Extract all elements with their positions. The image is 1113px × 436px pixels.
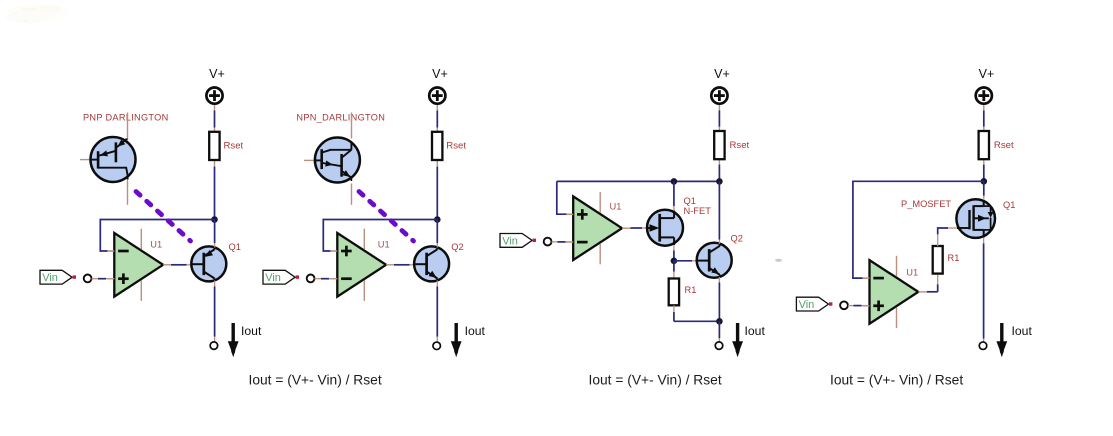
wire node B to Q2 collector (circuit 3)	[718, 181, 720, 239]
svg-text:PNP DARLINGTON: PNP DARLINGTON	[83, 113, 169, 123]
op-amp U1 (circuit 3) body	[573, 196, 622, 260]
input net flag Vin (circuit 4)	[796, 297, 828, 311]
resistor Rset pin stubs (circuit 4)	[983, 127, 985, 131]
transistor Q2 base lead (circuit 2)	[415, 263, 427, 265]
wire node B to Q1 drain (circuit 3)	[673, 181, 675, 206]
wire V+ to Rset (circuit 1)	[214, 105, 216, 111]
svg-text:Rset: Rset	[446, 141, 466, 152]
bottom wire R1 to node D (circuit 3)	[674, 320, 720, 322]
transistor Q2 emitter w/ NPN arrow (circuit 2)	[427, 272, 438, 279]
resistor Rset pin stubs (circuit 3)	[718, 127, 720, 131]
resistor Rset (circuit 2)	[432, 132, 442, 160]
transistor Q1 base bar (circuit 1)	[202, 253, 205, 275]
power supply V+ terminal symbol	[711, 88, 727, 104]
op-amp U1 (circuit 2) inverting input marker (-) bottom	[341, 277, 352, 280]
red hotspot dot at Vin flag tip (circuit 3)	[533, 239, 536, 242]
red hotspot dot at Vin flag tip (circuit 2)	[296, 275, 299, 278]
Iout current arrow (circuit 1)	[231, 323, 234, 342]
darlington PNP pin stubs (circuit 1)	[127, 113, 129, 141]
annotation dashed purple pointer (circuit 2)	[359, 192, 414, 242]
junction dot node C junction (circuit 3)	[671, 258, 678, 265]
input net flag Vin (circuit 1)	[40, 270, 72, 284]
wire op-amp output to Q2 base (circuit 2)	[394, 264, 410, 266]
transistor Q2 body circle (circuit 3)	[697, 243, 732, 278]
op-amp U1 (circuit 4) output pin stub	[918, 291, 927, 293]
Iout current arrow (circuit 3)	[736, 323, 739, 342]
Iout current arrow (circuit 4)	[1000, 323, 1003, 342]
op-amp U1 (circuit 1) input pin stubs	[107, 250, 114, 252]
svg-text:Iout = (V+- Vin) / Rset: Iout = (V+- Vin) / Rset	[249, 373, 382, 388]
svg-text:R1: R1	[685, 285, 697, 295]
output terminal circle (circuit 2)	[433, 342, 441, 350]
svg-text:N-FET: N-FET	[684, 206, 712, 216]
transistor Q2 body circle (circuit 2)	[414, 246, 449, 281]
svg-text:Vin: Vin	[265, 272, 281, 284]
faint background smudge (very light)	[6, 4, 68, 23]
wire Q2 emitter down to node D (circuit 3)	[718, 277, 720, 283]
wire op-amp output to Q1 base (circuit 1)	[171, 264, 187, 266]
svg-text:Vin: Vin	[502, 235, 518, 247]
wire node E to Q1 source (circuit 4)	[983, 181, 985, 196]
op-amp U1 (circuit 2) positive supply pin stub	[363, 229, 365, 250]
red hotspot dot at Vin flag tip (circuit 4)	[829, 302, 832, 305]
op-amp U1 (circuit 3) input pin stubs	[566, 213, 573, 215]
feedback wire node E to op-amp - input (circuit 4)	[853, 181, 984, 278]
feedback pin stub into op-amp (circuit 3)	[567, 213, 574, 215]
transistor Q1 collector (circuit 1)	[204, 272, 215, 279]
op-amp U1 (circuit 3) negative supply pin stub	[599, 244, 601, 264]
svg-text:Rset: Rset	[224, 141, 244, 152]
darlington PNP internal symbol (circuit 1)	[91, 159, 98, 161]
svg-text:Q1: Q1	[684, 196, 696, 206]
annotation dashed purple pointer (circuit 1)	[136, 192, 191, 242]
feedback wire node A1 to op-amp inverting input (circuit 1)	[100, 220, 214, 252]
darlington NPN body circle (circuit 2)	[315, 138, 360, 183]
transistor Q2 collector (circuit 2)	[427, 249, 438, 256]
wire V+ to Rset (circuit 4)	[983, 105, 985, 111]
svg-text:Q2: Q2	[451, 242, 463, 252]
transistor Q1 N-FET internal symbol (circuit 3)	[648, 227, 654, 229]
wire Rset to node B (circuit 3)	[718, 165, 720, 182]
svg-text:Rset: Rset	[730, 140, 750, 151]
op-amp U1 (circuit 2) body	[337, 233, 386, 297]
output terminal circle (circuit 4)	[979, 342, 987, 350]
transistor Q1 base lead (circuit 1)	[192, 263, 204, 265]
transistor Q2 collector (circuit 3)	[709, 246, 720, 253]
wire V+ to Rset (circuit 2)	[436, 105, 438, 111]
op-amp U1 (circuit 1) body	[114, 233, 163, 297]
op-amp U1 (circuit 4) positive supply pin stub	[896, 256, 898, 276]
transistor Q2 emitter w/ NPN arrow (circuit 3)	[709, 268, 720, 275]
svg-text:Vin: Vin	[42, 272, 58, 284]
wire node A2 to Q2 collector (circuit 2)	[436, 220, 438, 244]
svg-text:Iout = (V+- Vin) / Rset: Iout = (V+- Vin) / Rset	[589, 373, 722, 388]
wire op-amp output up to R1 (circuit 4)	[927, 291, 938, 293]
wire node D to output terminal (circuit 3)	[718, 321, 720, 338]
wire Q1 source to node C (circuit 3)	[673, 245, 675, 250]
input terminal circle (circuit 1)	[84, 275, 92, 283]
Iout current arrow (circuit 2)	[455, 323, 458, 342]
transistor Q2 base bar (circuit 2)	[425, 253, 428, 275]
transistor Q2 base lead (circuit 3)	[698, 260, 710, 262]
power supply V+ terminal symbol	[206, 88, 222, 104]
op-amp U1 (circuit 1) non-inverting input marker (+) bottom	[118, 277, 129, 280]
resistor Rset (circuit 4)	[979, 131, 989, 159]
svg-text:U1: U1	[378, 239, 390, 249]
wire R1 to bottom rail (circuit 3)	[673, 305, 675, 312]
feedback wire to op-amp + input (circuit 3)	[557, 181, 567, 214]
op-amp U1 (circuit 2) negative supply pin stub	[363, 280, 365, 301]
feedback wire node A2 to op-amp + input (circuit 2)	[323, 220, 437, 252]
wire node A1 to Q1 emitter (circuit 1)	[214, 220, 216, 244]
svg-text:R1: R1	[948, 253, 960, 263]
resistor R1 (circuit 3)	[669, 279, 679, 306]
wire Vin terminal to op-amp - input (circuit 3)	[552, 241, 558, 243]
wire Q1 collector to output terminal (circuit 1)	[214, 281, 216, 287]
op-amp U1 (circuit 3) non-inverting input marker (+) top	[577, 213, 588, 216]
svg-text:Vin: Vin	[799, 299, 815, 311]
resistor R1 (circuit 4)	[933, 246, 943, 274]
transistor Q1 N-FET body circle (circuit 3)	[647, 210, 683, 246]
transistor Q2 base bar (circuit 3)	[708, 249, 711, 271]
darlington NPN pin stubs (circuit 2)	[351, 113, 353, 139]
wire R1 to Q1 gate (circuit 4)	[937, 234, 939, 247]
svg-text:Q1: Q1	[229, 242, 241, 252]
input net flag Vin (circuit 2)	[263, 270, 295, 284]
svg-text:U1: U1	[610, 201, 622, 211]
red hotspot dot at Vin flag tip (circuit 1)	[73, 275, 76, 278]
darlington PNP body circle (circuit 1)	[91, 137, 136, 182]
svg-text:P_MOSFET: P_MOSFET	[901, 199, 951, 209]
op-amp U1 (circuit 3) output pin stub	[622, 227, 631, 229]
wire node C to Q2 base (circuit 3)	[674, 260, 692, 262]
output terminal circle (circuit 1)	[210, 342, 218, 350]
op-amp U1 (circuit 1) output pin stub	[163, 264, 172, 266]
wire Rset to node A2 (circuit 2)	[436, 167, 438, 220]
faint gray dot artifact between circuits	[775, 259, 782, 262]
input terminal circle (circuit 4)	[840, 301, 848, 309]
wire Vin terminal to op-amp - input (circuit 2)	[315, 278, 322, 280]
op-amp U1 (circuit 1) positive supply pin stub	[140, 229, 142, 250]
power supply V+ terminal symbol	[976, 88, 992, 104]
transistor Q1 body circle (circuit 1)	[191, 246, 226, 281]
wire V+ to Rset (circuit 3)	[718, 105, 720, 111]
wire op-amp output to Q1 gate (circuit 3)	[631, 227, 643, 229]
wire Vin terminal to op-amp + input (circuit 1)	[92, 278, 99, 280]
svg-text:Iout: Iout	[1012, 324, 1033, 338]
svg-text:V+: V+	[714, 67, 730, 81]
svg-text:Iout: Iout	[745, 324, 766, 338]
resistor Rset pin stubs (circuit 1)	[214, 128, 216, 132]
resistor Rset (circuit 3)	[714, 131, 724, 159]
svg-text:V+: V+	[432, 67, 448, 81]
top horizontal wire node B (circuit 3)	[557, 180, 720, 182]
transistor Q1 P-MOSFET body circle (circuit 4)	[956, 199, 995, 238]
svg-text:Iout: Iout	[465, 324, 486, 338]
feedback pin stub into op-amp (circuit 4)	[863, 277, 870, 279]
input terminal circle (circuit 3)	[544, 238, 552, 246]
svg-text:Rset: Rset	[994, 140, 1014, 151]
junction dot node E junction (circuit 4)	[981, 178, 988, 185]
svg-text:Q2: Q2	[731, 233, 743, 243]
feedback pin stub into op-amp (circuit 2)	[331, 250, 338, 252]
op-amp U1 (circuit 4) non-inverting input marker (+) bottom	[873, 304, 884, 307]
power supply V+ terminal symbol	[429, 88, 445, 104]
wire Rset to node A1 (circuit 1)	[214, 167, 216, 220]
junction dot node D junction (circuit 3)	[716, 318, 723, 325]
resistor Rset pin stubs (circuit 2)	[436, 128, 438, 132]
op-amp U1 (circuit 4) input pin stubs	[863, 277, 870, 279]
svg-text:Iout = (V+- Vin) / Rset: Iout = (V+- Vin) / Rset	[830, 373, 963, 388]
resistor Rset (circuit 1)	[209, 132, 219, 160]
svg-text:V+: V+	[209, 67, 225, 81]
junction dot node B junction at Q1 drain (circuit 3)	[671, 178, 678, 185]
svg-text:Iout: Iout	[241, 324, 262, 338]
junction dot node B junction at Rset (circuit 3)	[716, 178, 723, 185]
op-amp U1 (circuit 2) input pin stubs	[330, 250, 337, 252]
junction dot node A1 (circuit 1)	[211, 216, 218, 223]
op-amp U1 (circuit 4) inverting input marker (-) top	[873, 277, 884, 280]
op-amp U1 (circuit 3) positive supply pin stub	[599, 192, 601, 213]
op-amp U1 (circuit 2) non-inverting input marker (+) top	[341, 250, 352, 253]
wire Vin terminal to op-amp + input (circuit 4)	[848, 305, 854, 307]
op-amp U1 (circuit 1) inverting input marker (-) top	[118, 250, 129, 253]
junction dot node A2 (circuit 2)	[434, 216, 441, 223]
darlington NPN internal symbol (circuit 2)	[315, 159, 322, 161]
feedback pin stub into op-amp (circuit 1)	[108, 250, 115, 252]
op-amp U1 (circuit 2) output pin stub	[386, 264, 395, 266]
transistor Q1 P-MOSFET internal symbol (circuit 4)	[957, 227, 970, 229]
svg-text:Q1: Q1	[1003, 200, 1015, 210]
wire node C to R1 (circuit 3)	[673, 261, 675, 272]
output terminal circle (circuit 3)	[715, 342, 723, 350]
op-amp U1 (circuit 4) body	[870, 260, 919, 324]
svg-text:V+: V+	[979, 67, 995, 81]
wire Q2 emitter to output terminal (circuit 2)	[436, 281, 438, 287]
wire Rset to node E (circuit 4)	[983, 165, 985, 182]
transistor Q1 emitter w/ PNP arrow (circuit 1)	[204, 249, 215, 256]
op-amp U1 (circuit 3) inverting input marker (-) bottom	[577, 241, 588, 244]
svg-text:U1: U1	[150, 239, 162, 249]
op-amp U1 (circuit 4) negative supply pin stub	[896, 308, 898, 329]
svg-text:NPN_DARLINGTON: NPN_DARLINGTON	[296, 113, 385, 123]
svg-text:U1: U1	[906, 267, 918, 277]
wire Q1 drain to output terminal (circuit 4)	[983, 238, 985, 244]
input terminal circle (circuit 2)	[307, 275, 315, 283]
op-amp U1 (circuit 1) negative supply pin stub	[140, 280, 142, 301]
input net flag Vin (circuit 3)	[500, 234, 532, 248]
